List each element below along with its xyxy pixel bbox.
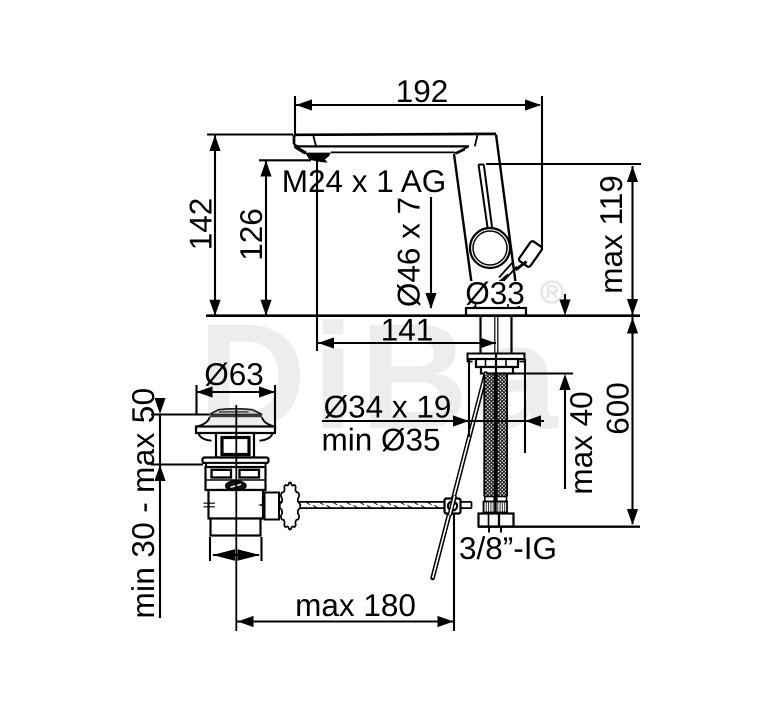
base plate bbox=[466, 308, 526, 316]
M24 leader line bbox=[316, 156, 318, 351]
faucet spout underside bbox=[294, 144, 469, 146]
hose knurled nuts bbox=[484, 502, 496, 513]
svg-text:max 40: max 40 bbox=[563, 391, 599, 494]
dim Ø34x19 leader bbox=[322, 420, 544, 422]
svg-text:max 119: max 119 bbox=[593, 175, 629, 293]
drain upper body bbox=[206, 467, 266, 490]
drain plug dome cap bbox=[210, 409, 263, 415]
dim 141 line bbox=[317, 342, 496, 344]
faucet body right edge bbox=[496, 134, 519, 308]
dim Ø63 line bbox=[197, 391, 276, 393]
spout-body bevel joint bbox=[455, 146, 470, 153]
hose end collars bbox=[485, 497, 494, 502]
rod joint block bbox=[445, 499, 461, 514]
spout-body seam bbox=[475, 135, 478, 146]
dim 600 line bbox=[631, 317, 633, 524]
drain top flange bbox=[196, 427, 275, 434]
temperature lever grip bbox=[518, 240, 543, 267]
drain mid flange bbox=[203, 458, 269, 464]
svg-text:min Ø35: min Ø35 bbox=[321, 422, 440, 458]
svg-text:Ø33: Ø33 bbox=[465, 275, 525, 311]
dimension arrowheads bbox=[154, 99, 638, 627]
dim 142 line bbox=[214, 135, 216, 316]
pop-up pull rod (diagonal) bbox=[433, 374, 486, 579]
drain screw oval bbox=[226, 481, 246, 490]
drain centerline bbox=[235, 405, 237, 631]
base plate leader ticks from Ø33 bbox=[476, 304, 509, 308]
dim max40 bbox=[564, 294, 566, 300]
spout front lip line bbox=[331, 151, 455, 153]
hose center rod line bbox=[495, 354, 497, 528]
countertop deck line bbox=[206, 314, 640, 317]
watermark logo bbox=[198, 292, 564, 460]
svg-text:192: 192 bbox=[396, 73, 449, 109]
aerator dark tip bbox=[294, 145, 331, 163]
Ø46 leader line bbox=[430, 197, 432, 308]
faucet body front(left) edge bbox=[454, 154, 475, 309]
svg-text:Ø46 x 7: Ø46 x 7 bbox=[391, 197, 427, 307]
dim max119 line bbox=[631, 166, 633, 315]
horizontal transfer rod bbox=[262, 502, 445, 508]
svg-text:Ø34 x 19: Ø34 x 19 bbox=[324, 389, 452, 425]
hose end hex nuts 3/8 bbox=[479, 514, 500, 527]
svg-text:M24 x 1 AG: M24 x 1 AG bbox=[282, 163, 447, 199]
hose male thread stubs bbox=[489, 527, 501, 533]
drain lower body bbox=[209, 490, 264, 519]
spout outlet front edge bbox=[313, 136, 316, 148]
handle knob circle bbox=[470, 228, 510, 268]
drain cap skirt bbox=[197, 417, 275, 426]
svg-text:min 30 - max 50: min 30 - max 50 bbox=[125, 387, 161, 618]
svg-text:142: 142 bbox=[183, 198, 219, 251]
white backing for Ø33 label bbox=[462, 281, 528, 306]
svg-text:600: 600 bbox=[600, 382, 636, 435]
braided supply hoses bbox=[484, 375, 507, 497]
handle lever bbox=[479, 165, 493, 229]
horseshoe washer bbox=[468, 354, 525, 360]
dim max180 line bbox=[237, 620, 454, 622]
pop-up rod inside shank bbox=[495, 316, 498, 354]
svg-text:max 180: max 180 bbox=[295, 587, 416, 623]
dim 192 line bbox=[295, 104, 540, 106]
knurled thumbwheel bbox=[280, 483, 300, 530]
faucet spout top outline bbox=[294, 134, 496, 144]
dim 126 line bbox=[265, 161, 267, 316]
svg-text:Ø63: Ø63 bbox=[204, 356, 264, 392]
rod arrow into drain bbox=[258, 499, 277, 510]
shank collar bbox=[481, 367, 513, 374]
svg-text:3/8”-IG: 3/8”-IG bbox=[459, 530, 557, 566]
tee stem to thumbwheel bbox=[265, 493, 280, 520]
mounting hex nut bbox=[476, 359, 518, 367]
flange under-wings bbox=[199, 433, 273, 441]
drain neck bbox=[216, 433, 254, 458]
dim min30-max50 line bbox=[159, 414, 161, 618]
temperature lever collar bbox=[516, 262, 527, 271]
svg-text:126: 126 bbox=[233, 208, 269, 261]
overflow slot bbox=[222, 438, 249, 455]
svg-text:141: 141 bbox=[381, 312, 434, 348]
watermark registered mark bbox=[542, 282, 563, 303]
dim tailpipe line bbox=[213, 554, 259, 556]
threaded shank bbox=[481, 316, 512, 354]
temperature lever shaft bbox=[499, 263, 517, 282]
drain tailpipe bbox=[211, 519, 261, 536]
rod right stub bbox=[461, 502, 472, 508]
pull rod over block bbox=[450, 496, 455, 516]
